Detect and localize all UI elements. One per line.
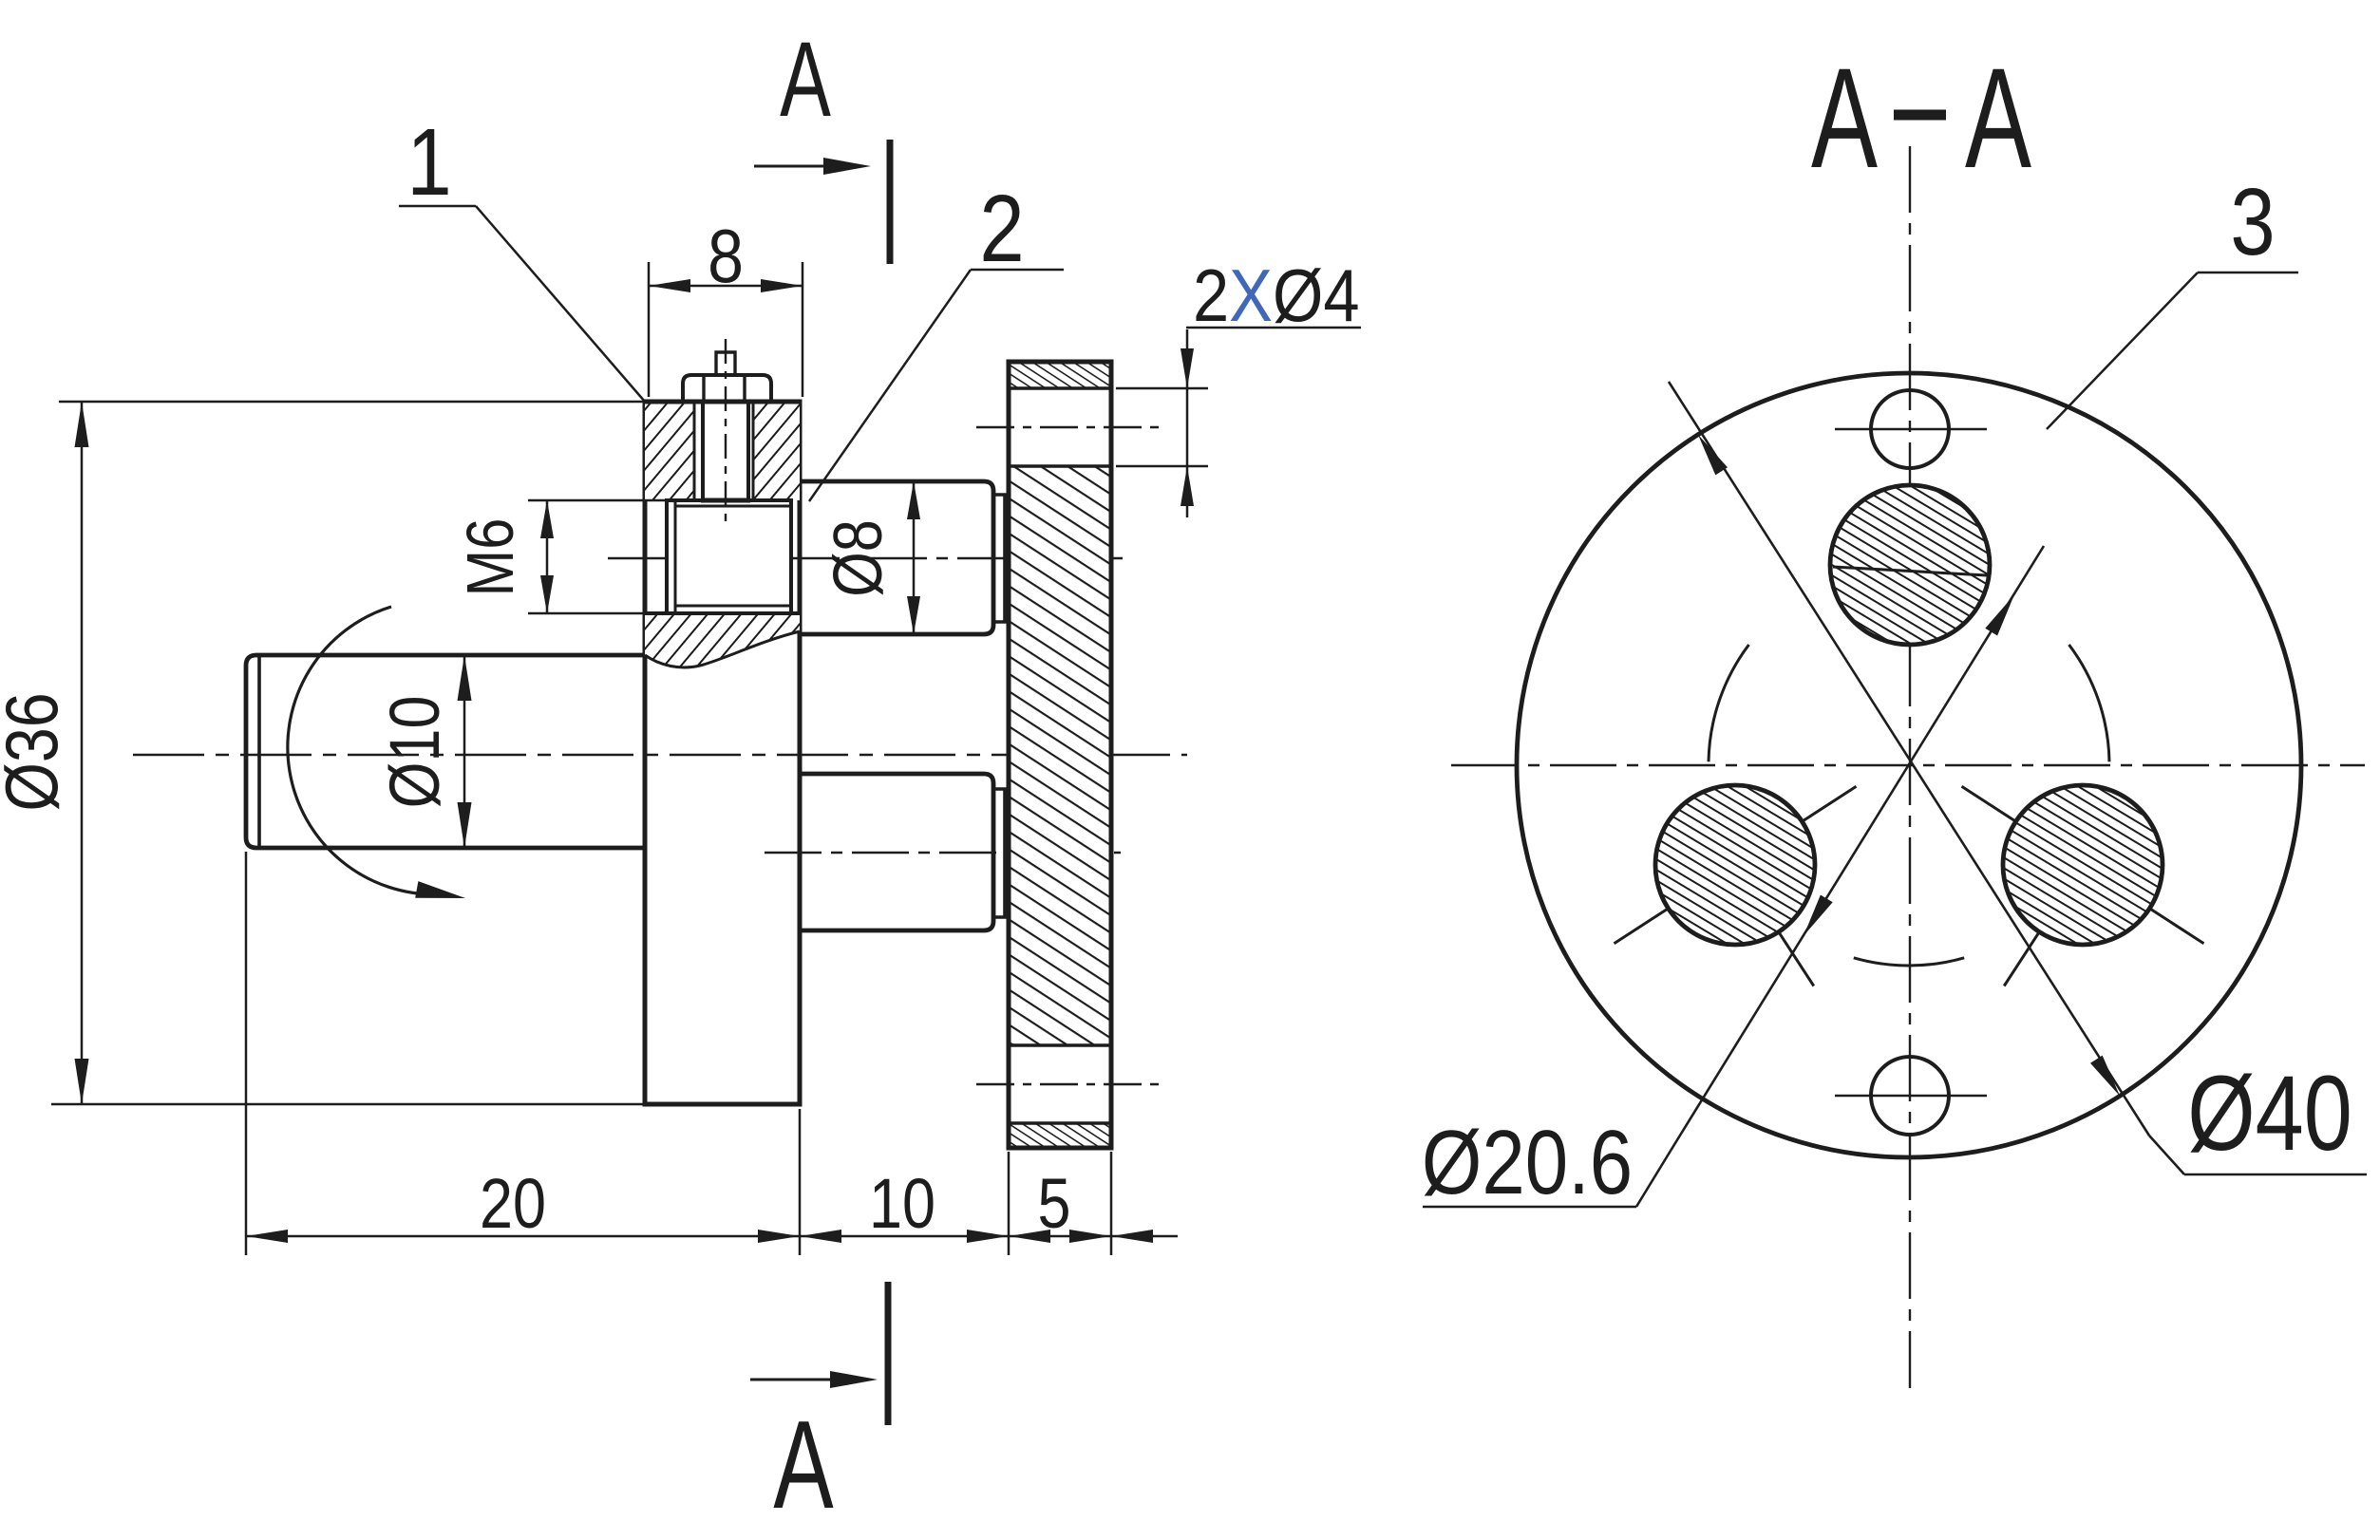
svg-text:20: 20 [480, 1164, 546, 1243]
svg-text:A: A [1811, 40, 1879, 198]
wheel part3 body [1009, 362, 1111, 1148]
extension line at shaft end [245, 852, 248, 1255]
lower pin center line [765, 852, 1121, 854]
pitch circle arc right [2069, 645, 2110, 761]
dimension 8 extension lines [648, 262, 651, 397]
pitch circle arc left [1709, 645, 1749, 761]
dimension Ø40 line [1669, 382, 2149, 1136]
set screw center line [725, 339, 727, 524]
dimension 8 line [649, 285, 803, 288]
rotation direction arc [288, 607, 439, 894]
svg-text:Ø36: Ø36 [0, 692, 73, 811]
bottom-left roller center marks [1615, 909, 1669, 944]
dimension Ø10 line [463, 655, 466, 848]
upper pin center line [608, 557, 1125, 559]
set screw tip line [701, 498, 750, 503]
set screw head [683, 375, 771, 402]
svg-text:1: 1 [406, 108, 451, 215]
dimension M6 line [546, 500, 549, 613]
shaft Ø10 body [246, 655, 645, 848]
dimension Ø8 line [913, 481, 916, 634]
bottom-left roller pin section [1655, 785, 1815, 945]
svg-text:5: 5 [1038, 1164, 1071, 1243]
upper pin part2 Ø8 body [800, 481, 993, 634]
bottom chained dimension line 20-10-5 [246, 1235, 1178, 1238]
svg-text:2XØ4: 2XØ4 [1193, 254, 1360, 337]
upper pin stub into wheel [993, 495, 1005, 622]
top roller pin section [1830, 485, 1990, 645]
extension line at plate face [799, 1109, 802, 1255]
bottom-right roller pin section [2003, 785, 2163, 945]
pitch circle arc bottom [1854, 958, 1964, 966]
svg-text:A: A [1965, 40, 2032, 198]
A-A vertical center line [1909, 146, 1911, 1388]
section cut mark bottom [885, 1282, 892, 1425]
lower pin stub into wheel [993, 789, 1005, 917]
wheel bottom hole center line [976, 1083, 1166, 1085]
main shaft center line [133, 754, 1187, 756]
svg-text:Ø40: Ø40 [2187, 1053, 2352, 1173]
bottom Ø4 hole circle [1871, 1057, 1949, 1135]
bottom-right roller center marks [2149, 909, 2203, 944]
wheel top hole center line [976, 426, 1166, 428]
svg-text:Ø8: Ø8 [821, 519, 897, 597]
svg-text:10: 10 [869, 1164, 935, 1243]
top Ø4 hole circle [1871, 390, 1949, 468]
dimension 2xØ4 extension lines [1116, 387, 1208, 390]
screw clearance hole edges [693, 402, 696, 500]
section cut mark top [887, 140, 894, 264]
svg-text:M6: M6 [452, 518, 527, 597]
label 2xØ4 underline and leader [1186, 327, 1361, 329]
shaft end chamfer line [257, 656, 261, 847]
dimension Ø36 line [81, 402, 84, 1104]
M6 threaded hole outline [667, 500, 791, 613]
svg-text:3: 3 [2230, 168, 2275, 274]
disc plate part1 outline [645, 402, 800, 1104]
hub hatch left of screw hole [645, 402, 694, 500]
dimension Ø36 extension lines [59, 401, 645, 404]
M6 hole thread minor lines [675, 505, 791, 508]
extension line at wheel right face [1110, 1152, 1113, 1255]
svg-text:A: A [773, 1396, 834, 1535]
hub top edge thick [645, 400, 800, 404]
top roller chord line [1833, 567, 1987, 575]
A-A horizontal center line [1451, 764, 2365, 766]
hub hatch strip below M6 hole with break line [645, 613, 800, 667]
svg-text:Ø10: Ø10 [375, 696, 454, 809]
hub hatch right of screw hole [753, 402, 800, 500]
dimension M6 extension lines [528, 499, 665, 502]
svg-text:2: 2 [979, 175, 1024, 281]
svg-text:Ø20.6: Ø20.6 [1422, 1111, 1633, 1213]
freehand break line [645, 631, 800, 667]
lower pin body [800, 774, 993, 930]
dimension 2xØ4 line [1186, 329, 1189, 517]
stud above head [716, 352, 735, 375]
svg-text:8: 8 [708, 214, 744, 298]
dimension Ø20.6 line [1671, 546, 2044, 1151]
extension line at wheel left face [1008, 1152, 1011, 1255]
svg-text:A: A [780, 20, 831, 139]
wheel outer circle Ø40 [1517, 373, 2301, 1157]
set screw shank [701, 402, 705, 500]
